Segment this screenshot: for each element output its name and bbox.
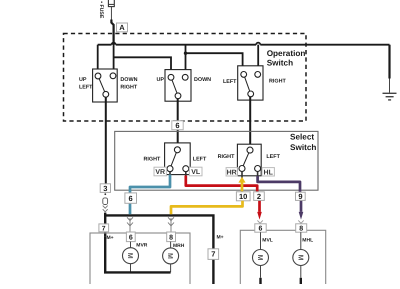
connector 6 [172, 121, 183, 130]
svg-text:DOWN: DOWN [194, 77, 211, 83]
svg-text:6: 6 [129, 235, 133, 242]
svg-text:6: 6 [129, 194, 133, 203]
wire fuse to A [110, 7, 112, 20]
svg-text:M: M [296, 255, 303, 261]
connector 3 [100, 184, 110, 193]
wire hop on bus1 at sw3 branch [256, 43, 260, 45]
wire yellow 10 to MRH pin 8 [171, 201, 243, 214]
pin 6 MVL [255, 224, 266, 233]
pin label HL [262, 168, 274, 177]
connector 6 (select bottom) [125, 193, 137, 203]
pin label VL [189, 167, 202, 176]
wire bus3 to sw3 left pin [186, 53, 243, 71]
svg-text:Select: Select [290, 132, 314, 141]
svg-text:LEFT: LEFT [223, 79, 237, 85]
ground [383, 93, 397, 100]
purple taper arrow to MHL pin 8 [299, 212, 304, 220]
svg-text:RIGHT: RIGHT [269, 79, 286, 85]
wire red VL to pin 2 [185, 172, 187, 176]
svg-text:VR: VR [155, 169, 165, 176]
svg-text:LEFT: LEFT [266, 154, 280, 160]
wire blue VR to pin 6 [169, 172, 171, 175]
switch S1 (UP LEFT / DOWN RIGHT) [93, 69, 118, 102]
svg-text:M: M [256, 255, 263, 261]
svg-text:M+: M+ [217, 234, 224, 240]
wire sw3 right pin from bus1 [257, 45, 259, 72]
switch S3 (LEFT / RIGHT) [238, 66, 263, 100]
svg-text:HR: HR [227, 169, 237, 176]
svg-text:M+: M+ [107, 235, 114, 241]
pin label VR [154, 167, 166, 176]
svg-text:6: 6 [259, 226, 263, 233]
left mirror box [90, 233, 190, 289]
svg-text:10: 10 [239, 192, 247, 201]
svg-text:Operation: Operation [267, 49, 306, 58]
svg-text:8: 8 [169, 235, 173, 242]
svg-text:RIGHT: RIGHT [120, 84, 137, 90]
connector A [117, 23, 128, 32]
pin 6 MVR [126, 232, 135, 242]
svg-text:MVR: MVR [136, 242, 148, 248]
junction dot [184, 52, 187, 55]
pin 8 MRH [167, 232, 176, 242]
pin label HR [226, 168, 237, 177]
arrow into MRH pin 8 [168, 217, 174, 231]
motor MVL [253, 232, 269, 284]
arrow into MVR pin 6 [127, 217, 133, 231]
wire sw3 bottom to select switch [249, 97, 251, 147]
select switch SV (VR/VL) [165, 143, 191, 175]
connector 7 right [208, 249, 219, 260]
fuse F1 [108, 0, 114, 7]
svg-text:9: 9 [298, 192, 302, 201]
select switch box [115, 131, 318, 190]
wire bus2 to sw2 left pin [114, 57, 171, 74]
wire to ground [388, 45, 390, 79]
svg-text:HL: HL [264, 169, 274, 176]
svg-text:RIGHT: RIGHT [144, 157, 161, 163]
node dot below 3 [104, 193, 106, 195]
svg-text:RIGHT: RIGHT [218, 154, 235, 160]
noise filter [103, 198, 108, 205]
svg-text:MVL: MVL [262, 238, 273, 244]
right mirror box [240, 230, 325, 289]
motor MVR [123, 242, 139, 273]
svg-text:3: 3 [103, 184, 107, 193]
pin 8 MHL [296, 224, 307, 233]
connector 9 [296, 192, 306, 201]
red taper arrow to MVL pin 6 [257, 212, 262, 220]
wire sw2 right pin from bus1 [185, 45, 187, 74]
operation switch dashed box [64, 34, 307, 122]
wire M+ internal bus left box [105, 236, 170, 272]
wire hop on bus1 over feed wire [112, 43, 116, 45]
connector 7 left [99, 224, 109, 233]
connector 2 [254, 192, 265, 201]
wire HR stub [241, 172, 243, 179]
svg-text:8: 8 [299, 226, 303, 233]
svg-text:M: M [126, 253, 133, 259]
wire main feed to sw1 right pin [113, 25, 115, 73]
svg-text:2: 2 [257, 192, 261, 201]
svg-text:Switch: Switch [267, 58, 293, 67]
svg-text:MHL: MHL [302, 238, 313, 244]
svg-text:7: 7 [102, 225, 106, 232]
svg-text:LEFT: LEFT [79, 84, 93, 90]
select switch SH (HR/HL) [237, 144, 261, 176]
motor MHL [293, 232, 309, 284]
connector 10 [236, 192, 250, 201]
wire M+ thick bus [105, 213, 213, 284]
wire sw1 left pin from bus1 [97, 45, 99, 73]
svg-text:DOWN: DOWN [120, 77, 137, 83]
svg-text:LEFT: LEFT [193, 157, 207, 163]
svg-text:VL: VL [191, 169, 201, 176]
svg-text:Switch: Switch [290, 143, 316, 152]
svg-text:A: A [119, 23, 125, 32]
svg-text:6: 6 [175, 121, 179, 130]
wire sw1 bottom to connector 3 [105, 97, 107, 184]
wire sw2 bottom to select switch [177, 99, 179, 147]
chevrons pass-through [103, 206, 108, 212]
svg-text:UP: UP [157, 77, 165, 83]
switch S2 (UP / DOWN) [165, 70, 191, 102]
svg-text:7: 7 [211, 250, 215, 259]
motor MRH [163, 242, 179, 273]
svg-text:M: M [166, 253, 173, 259]
wire purple HL to pin 9 [257, 172, 259, 177]
svg-text:• FUSE: • FUSE [98, 1, 104, 19]
wire yellow arrow up to HR [241, 182, 244, 192]
wire bus1 (ground bus) [98, 44, 390, 46]
svg-text:UP: UP [79, 77, 87, 83]
svg-text:MRH: MRH [173, 243, 185, 249]
